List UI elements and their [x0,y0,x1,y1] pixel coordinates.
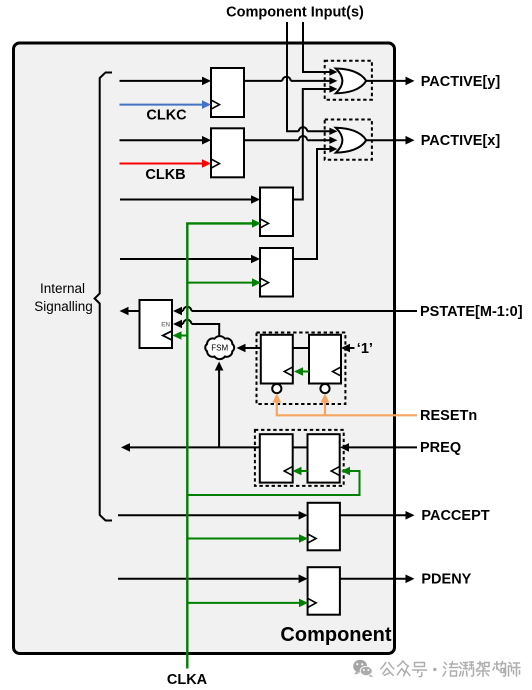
label PACCEPT [421,508,489,524]
wire EN register output (internal signalling) [120,307,140,316]
flip-flop FF2 (CLKB domain) [211,128,244,177]
flip-flop FF3 (CLKA retiming, upper) [260,188,293,237]
flip-flop P2 (PREQ sync right, mirrored) [308,434,340,482]
wire FSM output to EN register enable (hop over CLKA) [173,320,219,336]
wire PACCEPT output [340,511,415,520]
OR gate U2 (PACTIVE[x]) [336,128,366,153]
label Component Input(s) [226,5,364,21]
svg-text:Internal: Internal [40,281,85,296]
wire CLKC clock (blue) [120,100,212,109]
svg-text:PDENY: PDENY [421,572,471,588]
svg-text:Signalling: Signalling [34,299,93,314]
wire PREQ internal tap to FSM bottom [215,362,224,448]
label Internal Signalling [34,281,93,314]
svg-text:Component Input(s): Component Input(s) [226,5,364,21]
wire FF3 output to OR1 bottom input [293,85,337,199]
flip-flop F6 (PDENY output) [308,567,340,615]
wire component-input B (to upper OR gate top input) [303,22,337,76]
watermark wechat icon [353,660,373,677]
svg-text:PACTIVE[y]: PACTIVE[y] [421,74,501,90]
wire FF1 data input [120,77,212,86]
wire CLKA branch to P2 clock (green) [187,467,359,495]
label PSTATE[M-1:0] [420,304,523,320]
flip-flop F5 (PACCEPT output) [308,503,340,551]
wire component-input A (to lower OR gate top input) [287,22,337,135]
wire FF2 data input [120,136,212,145]
label CLKA [167,672,208,688]
svg-text:PSTATE[M-1:0]: PSTATE[M-1:0] [420,304,523,320]
wire FF4 output to OR2 bottom input [293,145,337,259]
wire OR1 output PACTIVE[y] [366,77,414,86]
wire PDENY FF data input [118,575,308,584]
wire PDENY output [340,575,415,584]
label CLKB [145,167,185,183]
OR gate U1 (PACTIVE[y]) [336,69,366,94]
wire constant '1' into R2 [341,344,355,353]
svg-text:PREQ: PREQ [420,440,461,456]
dashed box around OR gate U1 [325,61,372,100]
svg-text:Component: Component [280,624,391,646]
flip-flop R1 (RESETn sync left, mirrored) [261,335,293,384]
brace Internal Signalling [95,73,112,521]
svg-text:FSM: FSM [211,344,228,353]
flip-flop R2 (RESETn sync right, mirrored) [309,335,341,384]
svg-text:CLKB: CLKB [145,167,185,183]
reset bubble R2 [320,384,329,393]
label PREQ [420,440,461,456]
label PACTIVE[x] [421,133,501,149]
wire between P2 and P1 [293,446,308,448]
wire clock into R1 (green, from R2) [294,367,309,376]
svg-text:RESETn: RESETn [420,408,477,424]
svg-text:PACCEPT: PACCEPT [421,508,489,524]
wire CLKA branch to EN register clock (green, leftwards) [173,331,188,340]
svg-text:CLKC: CLKC [146,108,187,124]
label CLKC [146,108,187,124]
label Component [280,624,391,646]
wire CLKA branch to FF4 clock (green) [187,278,261,287]
label RESETn [420,408,477,424]
wire between R2 and R1 [293,347,309,349]
dashed box around OR gate U2 [325,120,372,160]
label PDENY [421,572,471,588]
flip-flop FF4 (CLKA retiming, lower) [260,248,293,297]
component boundary box [14,43,395,654]
watermark text 公众号·浩瀚架构师 (drawn strokes) [381,661,520,677]
wire PACCEPT FF data input [118,511,308,520]
wire RESETn (orange) [272,393,417,415]
wire RESETn synchronizer output to FSM [237,344,261,353]
wire CLKA branch to PACCEPT FF clock (green) [187,534,308,543]
wire FF2 output to OR2 middle input (hop over FF3 output riser) [244,136,337,144]
svg-text:CLKA: CLKA [167,672,208,688]
flip-flop P1 (PREQ sync left, mirrored) [260,434,293,482]
wire CLKB clock (red) [120,159,212,168]
wire OR2 output PACTIVE[x] [366,136,414,145]
FSM cloud [205,336,234,359]
wire FF4 data input [120,255,260,264]
register EN (PSTATE capture, mirrored) [140,300,173,348]
wire CLKA main trunk (green) [187,219,261,668]
svg-text:PACTIVE[x]: PACTIVE[x] [421,133,501,149]
wire FF1 output to OR1 middle input (hop over input line A) [244,77,337,85]
wire PREQ input into P2 [340,443,417,452]
reset bubble R1 [272,384,281,393]
svg-text:EN: EN [161,321,170,328]
dashed box PREQ synchronizer [255,430,344,486]
dashed box RESETn synchronizer [257,333,346,405]
label PACTIVE[y] [421,74,501,90]
wire PSTATE[M-1:0] into EN register (hop over CLKA) [173,307,417,316]
label '1' [357,341,373,357]
wire clock into P1 (green, from P2) [293,467,308,476]
flip-flop FF1 (CLKC domain) [211,68,244,117]
svg-text:‘1’: ‘1’ [357,341,373,357]
wire P1 output (internal signalling, tee to FSM) [121,443,260,452]
wire FF3 data input [120,195,260,204]
wire CLKA branch to PDENY FF clock (green) [187,599,308,608]
